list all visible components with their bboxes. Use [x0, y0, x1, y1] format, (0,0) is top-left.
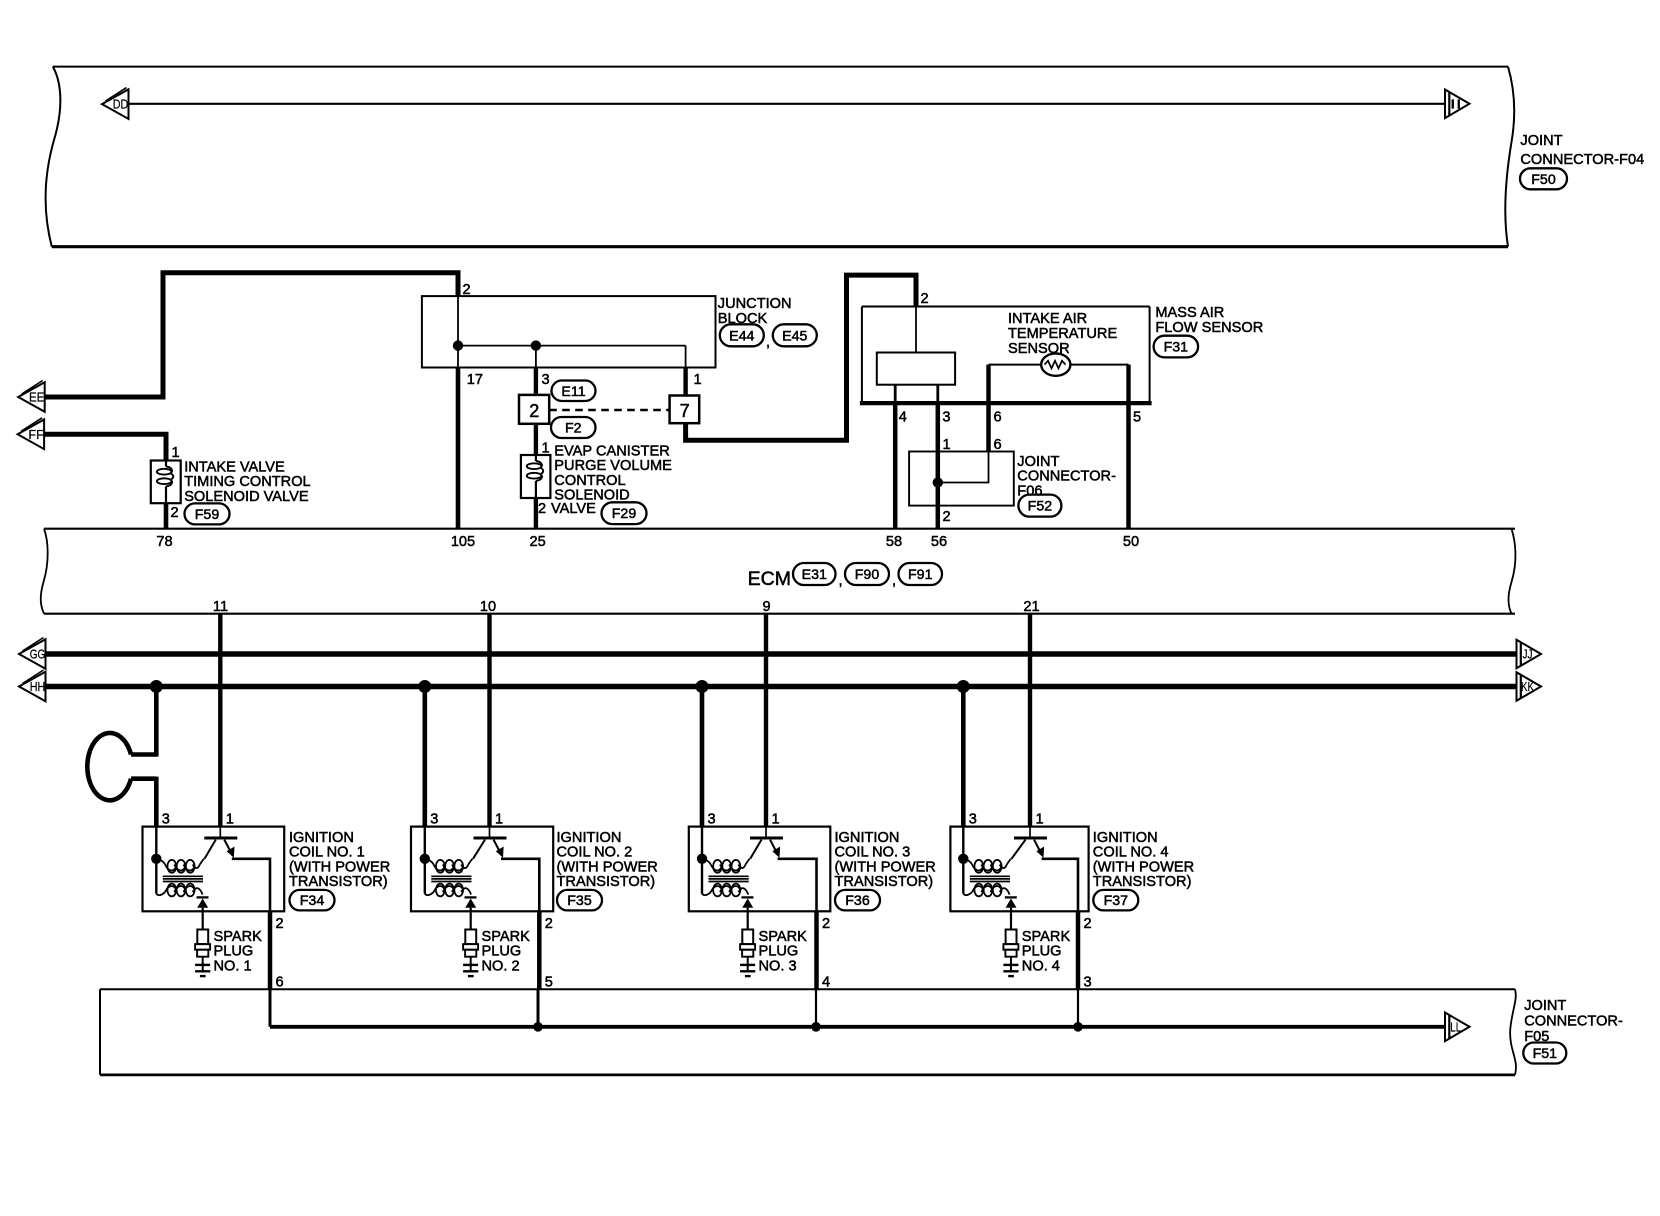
label EVAP CANISTER PURGE VOLUME CONTROL SOLENOID VALVE	[551, 443, 672, 517]
intake valve timing control solenoid valve F59	[151, 461, 181, 504]
ignition coil 2 transformer primary winding	[425, 859, 473, 873]
joint connector F04 band outline	[46, 67, 1515, 247]
junction node in block at pin 3 riser	[531, 340, 541, 350]
label JOINT CONNECTOR-F04	[1520, 133, 1644, 168]
svg-text:GG: GG	[30, 648, 46, 662]
label INTAKE VALVE TIMING CONTROL SOLENOID VALVE	[184, 459, 310, 505]
connector ref E11	[552, 381, 596, 402]
svg-text:F52: F52	[1028, 499, 1053, 515]
svg-text:TRANSISTOR): TRANSISTOR)	[835, 874, 934, 890]
wire coil 2 secondary to spark plug	[470, 908, 472, 930]
connector box E11/F2 terminal 2	[519, 395, 549, 424]
wire intake valve solenoid pin 2 to ECM pin 78	[164, 503, 169, 529]
svg-text:2: 2	[1084, 916, 1092, 932]
svg-text:1: 1	[694, 372, 702, 388]
intake air temperature sensor symbol	[1041, 353, 1070, 375]
svg-text:E11: E11	[561, 384, 585, 400]
svg-text:SPARK: SPARK	[214, 929, 263, 945]
svg-text:3: 3	[1084, 975, 1092, 991]
wire HH rail to ignition coil 4 pin 3	[961, 687, 966, 827]
wire connector F2 to evap solenoid	[534, 425, 538, 455]
label JUNCTION BLOCK	[718, 296, 792, 327]
label IGNITION COIL NO. 3	[835, 830, 936, 890]
svg-text:PURGE VOLUME: PURGE VOLUME	[554, 458, 672, 474]
ignition coil 1 primary feed	[155, 827, 157, 894]
label SPARK PLUG NO. 4	[1022, 929, 1071, 975]
ignition coil 2 transformer secondary winding	[425, 884, 471, 897]
spark plug No. 2	[463, 930, 478, 972]
junction block E44/E45 box	[422, 296, 716, 367]
ignition coil 2 power transistor	[473, 827, 507, 859]
svg-text:LL: LL	[1450, 1020, 1461, 1034]
ignition coil 1 secondary diode	[197, 897, 209, 907]
wire maf pin 3 riser	[936, 385, 939, 403]
ignition coil 2 primary feed	[424, 827, 426, 894]
ignition coil 3 primary feed	[701, 827, 703, 894]
label SPARK PLUG NO. 3	[759, 929, 808, 975]
svg-text:1: 1	[943, 437, 951, 453]
svg-text:COIL NO. 1: COIL NO. 1	[289, 845, 365, 861]
svg-text:6: 6	[994, 410, 1002, 426]
junction node F05 pin 4	[811, 1022, 821, 1032]
svg-text:4: 4	[822, 975, 830, 991]
svg-text:DD: DD	[113, 98, 129, 112]
svg-text:CONNECTOR-: CONNECTOR-	[1017, 469, 1116, 485]
svg-text:(WITH POWER: (WITH POWER	[835, 859, 936, 875]
arrow FF	[18, 418, 45, 449]
svg-text:(WITH POWER: (WITH POWER	[1093, 859, 1194, 875]
svg-text:PLUG: PLUG	[482, 944, 522, 960]
ignition coil 4 transformer secondary winding	[963, 884, 1009, 897]
svg-text:FLOW SENSOR: FLOW SENSOR	[1155, 320, 1263, 336]
svg-text:F90: F90	[855, 567, 880, 583]
svg-text:1: 1	[172, 445, 180, 461]
svg-text:TEMPERATURE: TEMPERATURE	[1008, 326, 1117, 342]
wire evap solenoid pin 2 to ECM pin 25	[534, 498, 538, 529]
wire ECM to ignition coil 2 pin 1	[487, 614, 491, 827]
svg-text:2: 2	[921, 291, 929, 307]
ignition coil 1 emitter wire to pin 2	[232, 859, 270, 912]
ignition coil 1 transformer core	[163, 876, 203, 881]
spark plug No. 3	[740, 930, 755, 972]
ignition coil 1 power transistor	[204, 827, 237, 859]
wire ignition coil 3 pin 2 to joint connector F05	[814, 911, 819, 989]
label SPARK PLUG NO. 1	[214, 929, 263, 975]
wire HH rail to condenser	[154, 687, 159, 757]
svg-text:MASS AIR: MASS AIR	[1155, 305, 1224, 321]
svg-text:JOINT: JOINT	[1520, 133, 1562, 149]
ignition coil 3 transformer core	[709, 876, 749, 881]
svg-text:INTAKE AIR: INTAKE AIR	[1008, 311, 1087, 327]
svg-text:TRANSISTOR): TRANSISTOR)	[557, 874, 656, 890]
svg-text:PLUG: PLUG	[214, 944, 254, 960]
mass air flow sensor F31 box	[860, 307, 1152, 404]
svg-text:21: 21	[1023, 599, 1039, 615]
svg-text:KK: KK	[1521, 680, 1535, 694]
svg-text:CONNECTOR-: CONNECTOR-	[1524, 1014, 1623, 1030]
wire FF to intake valve solenoid pin 1	[44, 434, 166, 460]
svg-text:PLUG: PLUG	[759, 944, 799, 960]
noise condenser loop	[87, 733, 156, 800]
junction block internal bus wire	[457, 296, 459, 367]
svg-text:HH: HH	[30, 680, 46, 694]
ignition coil 4 transformer core	[970, 876, 1010, 881]
ignition coil No. 4 box	[950, 827, 1088, 912]
svg-text:TIMING CONTROL: TIMING CONTROL	[184, 474, 310, 490]
junction node HH rail to coil 4	[957, 680, 970, 693]
svg-text:1: 1	[1036, 812, 1044, 828]
wire ECM to ignition coil 3 pin 1	[764, 614, 768, 827]
wire HH rail to ignition coil 3 pin 3	[700, 687, 705, 827]
evap canister purge volume control solenoid valve F29	[521, 455, 551, 498]
connector ref F59	[185, 503, 230, 524]
wire ignition coil 4 pin 2 to joint connector F05	[1076, 911, 1081, 989]
label MASS AIR FLOW SENSOR	[1155, 305, 1263, 336]
svg-text:2: 2	[529, 401, 539, 421]
wire iat sensor left to pin 6	[989, 364, 1042, 366]
svg-text:78: 78	[156, 534, 172, 550]
wire ECM to ignition coil 1 pin 1	[218, 614, 222, 827]
junction node coil 2 primary	[420, 854, 430, 864]
svg-text:3: 3	[969, 812, 977, 828]
connector ref F52	[1018, 495, 1061, 517]
svg-text:11: 11	[213, 599, 228, 615]
joint connector F05 band outline	[100, 989, 1516, 1075]
svg-text:2: 2	[171, 505, 179, 521]
wire coil 1 secondary to spark plug	[202, 908, 204, 930]
wire ECM to ignition coil 4 pin 1	[1028, 614, 1032, 827]
ignition coil 4 secondary diode	[1005, 897, 1017, 907]
arrow HH	[19, 670, 46, 701]
junction node coil 3 primary	[697, 854, 707, 864]
svg-text:TRANSISTOR): TRANSISTOR)	[289, 874, 388, 890]
svg-text:SPARK: SPARK	[1022, 929, 1071, 945]
svg-text:(WITH POWER: (WITH POWER	[557, 859, 658, 875]
svg-text:F2: F2	[565, 421, 582, 437]
ignition coil 3 emitter wire to pin 2	[778, 859, 817, 912]
svg-text:58: 58	[886, 534, 902, 550]
svg-text:COIL NO. 4: COIL NO. 4	[1093, 845, 1169, 861]
connector ref F37	[1093, 890, 1138, 911]
svg-text:F51: F51	[1533, 1046, 1558, 1062]
wire junction block pin 3 to connector E11/F2	[534, 368, 538, 396]
ignition coil 3 transformer primary winding	[702, 859, 750, 873]
svg-text:F59: F59	[195, 507, 220, 523]
arrow KK	[1517, 672, 1542, 701]
wire DD to II inside F04	[129, 103, 1445, 105]
svg-text:JJ: JJ	[1523, 648, 1533, 662]
svg-text:F91: F91	[908, 567, 933, 583]
wire HH rail to ignition coil 2 pin 3	[422, 687, 427, 827]
junction node in block at pin 17 riser	[453, 340, 463, 350]
ground spark plug No. 1	[195, 965, 210, 976]
wire ignition coil 1 pin 2 to joint connector F05	[268, 911, 273, 989]
svg-text:50: 50	[1123, 534, 1139, 550]
ignition coil No. 3 box	[689, 827, 831, 912]
svg-text:NO. 1: NO. 1	[214, 958, 252, 974]
junction node coil 1 primary	[151, 854, 161, 864]
svg-text:3: 3	[708, 812, 716, 828]
svg-text:17: 17	[467, 372, 483, 388]
label INTAKE AIR TEMPERATURE SENSOR	[1008, 311, 1117, 357]
connector ref F50	[1520, 168, 1567, 189]
ignition coil 4 emitter wire to pin 2	[1042, 859, 1079, 912]
arrow LL	[1445, 1013, 1470, 1042]
svg-text:COIL NO. 3: COIL NO. 3	[835, 845, 911, 861]
maf hot wire module box	[877, 353, 955, 385]
svg-text:9: 9	[762, 599, 770, 615]
connector ref E45	[773, 324, 817, 346]
svg-text:COIL NO. 2: COIL NO. 2	[557, 845, 633, 861]
junction node coil 4 primary	[958, 854, 968, 864]
wire maf pin 4 to ECM pin 58	[893, 403, 898, 529]
rail GG wire	[45, 651, 1517, 656]
connector ref F36	[835, 890, 880, 911]
junction node HH rail to coil 3	[696, 680, 709, 693]
ground spark plug No. 3	[740, 965, 755, 976]
svg-text:INTAKE VALVE: INTAKE VALVE	[184, 459, 285, 475]
ground spark plug No. 2	[463, 965, 478, 976]
wire coil3 pin 4 into F05	[815, 989, 817, 1027]
svg-text:IGNITION: IGNITION	[835, 830, 900, 846]
wire maf pin 6 to joint connector F06 pin 6	[986, 403, 991, 451]
wire junction block pin 1 to connector 7	[683, 368, 687, 397]
spark plug No. 1	[195, 930, 210, 972]
wire maf pin 4 riser	[894, 385, 897, 403]
svg-text:SPARK: SPARK	[482, 929, 531, 945]
connector ref F29	[602, 502, 647, 524]
ignition coil 3 secondary diode	[742, 897, 754, 907]
wire coil 3 secondary to spark plug	[747, 908, 749, 930]
ignition coil 4 power transistor	[1012, 827, 1048, 859]
wire coil4 pin 3 into F05	[1077, 989, 1079, 1027]
svg-text:TRANSISTOR): TRANSISTOR)	[1093, 874, 1192, 890]
svg-text:NO. 4: NO. 4	[1022, 958, 1060, 974]
svg-text:,: ,	[892, 573, 896, 589]
wire maf pin 3 through joint connector F06 to ECM pin 56	[936, 403, 941, 529]
svg-text:F29: F29	[612, 506, 637, 522]
ignition coil 2 transformer core	[431, 876, 471, 881]
joint connector F06 internal wire	[938, 452, 989, 483]
label JOINT CONNECTOR-F06	[1017, 454, 1116, 500]
junction node in F06	[933, 477, 943, 487]
ignition coil 3 power transistor	[750, 827, 783, 859]
label IGNITION COIL NO. 1	[289, 830, 390, 890]
wire junction block pin 17 to ECM pin 105	[456, 368, 461, 529]
svg-text:F36: F36	[845, 893, 870, 909]
svg-text:JUNCTION: JUNCTION	[718, 296, 792, 312]
svg-text:F50: F50	[1531, 172, 1556, 188]
svg-text:IGNITION: IGNITION	[289, 830, 354, 846]
svg-text:E45: E45	[782, 328, 807, 344]
svg-text:II: II	[1450, 97, 1462, 111]
svg-text:56: 56	[931, 534, 947, 550]
ECM band outline E31/F90/F91	[41, 529, 1516, 614]
svg-text:JOINT: JOINT	[1524, 998, 1566, 1014]
connector ref F90	[845, 563, 889, 585]
ignition coil 1 transformer secondary winding	[156, 884, 202, 897]
wire maf pin 5 to ECM pin 50	[1126, 403, 1131, 529]
ignition coil 3 transformer secondary winding	[702, 884, 748, 897]
arrow JJ	[1517, 640, 1542, 669]
svg-text:10: 10	[480, 599, 496, 615]
svg-text:ECM: ECM	[748, 568, 791, 590]
wire iat sensor right to pin 5	[1070, 364, 1128, 366]
svg-text:7: 7	[680, 401, 690, 421]
svg-text:CONNECTOR-F04: CONNECTOR-F04	[1520, 152, 1644, 168]
svg-text:F35: F35	[567, 893, 592, 909]
svg-text:1: 1	[772, 812, 780, 828]
svg-text:3: 3	[542, 372, 550, 388]
svg-text:2: 2	[276, 916, 284, 932]
arrow EE	[18, 381, 45, 412]
svg-text:2: 2	[463, 282, 471, 298]
svg-text:E44: E44	[729, 328, 754, 344]
connector ref F51	[1523, 1043, 1566, 1064]
svg-text:1: 1	[495, 812, 503, 828]
ignition coil 2 emitter wire to pin 2	[501, 859, 539, 912]
wire maf pin2 to module	[915, 307, 917, 353]
svg-text:3: 3	[942, 410, 950, 426]
svg-text:5: 5	[545, 975, 553, 991]
connector ref F31	[1154, 336, 1199, 358]
wire EE to junction block pin 2	[45, 273, 458, 397]
svg-text:3: 3	[430, 812, 438, 828]
svg-text:105: 105	[451, 534, 475, 550]
ignition coil No. 1 box	[143, 827, 285, 912]
rail HH wire	[45, 684, 1517, 689]
junction node HH rail to condenser	[150, 680, 163, 693]
svg-text:NO. 3: NO. 3	[759, 958, 797, 974]
svg-text:VALVE: VALVE	[551, 501, 596, 517]
junction node F05 pin 3	[1073, 1022, 1083, 1032]
svg-text:4: 4	[899, 410, 907, 426]
svg-text:CONTROL: CONTROL	[554, 473, 625, 489]
svg-text:2: 2	[538, 501, 546, 517]
svg-text:2: 2	[943, 509, 951, 525]
svg-text:F31: F31	[1164, 340, 1189, 356]
label IGNITION COIL NO. 4	[1093, 830, 1194, 890]
connector ref F35	[557, 890, 602, 911]
svg-text:25: 25	[529, 534, 545, 550]
ground spark plug No. 4	[1003, 965, 1018, 976]
svg-text:F37: F37	[1104, 893, 1129, 909]
dashed link between connector 2 and connector 7	[549, 409, 669, 411]
junction node HH rail to coil 2	[418, 680, 431, 693]
junction node F05 pin 5	[533, 1022, 543, 1032]
joint connector F06 box	[909, 452, 1014, 506]
connector ref E44	[720, 324, 764, 346]
svg-text:EE: EE	[29, 391, 45, 405]
wire coil 4 secondary to spark plug	[1010, 908, 1012, 930]
svg-text:JOINT: JOINT	[1017, 454, 1059, 470]
svg-text:2: 2	[545, 916, 553, 932]
wire coil2 pin 5 into F05	[537, 989, 540, 1027]
label JOINT CONNECTOR-F05	[1524, 998, 1623, 1045]
arrow GG	[19, 638, 46, 669]
connector ref F91	[899, 563, 943, 585]
wire ignition coil 2 pin 2 to joint connector F05	[537, 911, 542, 989]
svg-text:3: 3	[162, 812, 170, 828]
wire condenser to ignition coil 1 pin 3	[154, 777, 159, 827]
svg-text:6: 6	[276, 975, 284, 991]
label SPARK PLUG NO. 2	[482, 929, 531, 975]
wire connector 7 to mass air flow sensor pin 2	[686, 275, 916, 440]
spark plug No. 4	[1003, 930, 1018, 972]
svg-text:NO. 2: NO. 2	[482, 958, 520, 974]
wire maf pin 5 riser	[1126, 365, 1130, 404]
svg-text:6: 6	[994, 437, 1002, 453]
svg-text:2: 2	[822, 916, 830, 932]
connector ref F2	[551, 417, 596, 438]
svg-text:,: ,	[766, 335, 770, 351]
svg-text:IGNITION: IGNITION	[557, 830, 622, 846]
svg-text:PLUG: PLUG	[1022, 944, 1062, 960]
connector ref E31	[793, 563, 836, 585]
arrow DD	[102, 88, 129, 119]
connector ref F34	[290, 890, 335, 911]
ignition coil No. 2 box	[411, 827, 553, 912]
connector box terminal 7	[670, 396, 700, 424]
svg-text:F34: F34	[300, 893, 325, 909]
svg-text:(WITH POWER: (WITH POWER	[289, 859, 390, 875]
joint bus wire in F05	[269, 989, 272, 1027]
ignition coil 1 transformer primary winding	[156, 859, 204, 873]
svg-text:FF: FF	[28, 428, 44, 442]
svg-text:E31: E31	[802, 567, 827, 583]
svg-text:5: 5	[1133, 410, 1141, 426]
arrow II	[1445, 90, 1470, 119]
ignition coil 4 primary feed	[962, 827, 964, 894]
wire maf pin 6 riser	[986, 365, 990, 404]
svg-text:SPARK: SPARK	[759, 929, 808, 945]
ignition coil 2 secondary diode	[465, 897, 477, 907]
svg-text:EVAP CANISTER: EVAP CANISTER	[554, 443, 669, 459]
svg-text:SENSOR: SENSOR	[1008, 341, 1070, 357]
svg-text:1: 1	[226, 812, 234, 828]
svg-text:IGNITION: IGNITION	[1093, 830, 1158, 846]
label IGNITION COIL NO. 2	[557, 830, 658, 890]
ignition coil 4 transformer primary winding	[963, 859, 1011, 873]
svg-text:,: ,	[839, 573, 843, 589]
